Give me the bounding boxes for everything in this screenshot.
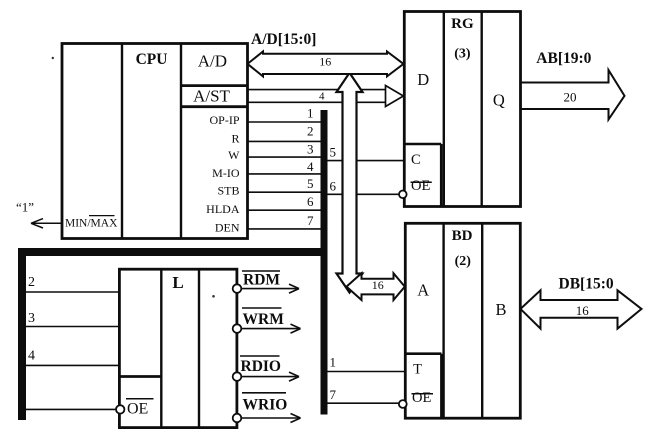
svg-text:OE: OE: [412, 390, 431, 406]
svg-text:C: C: [411, 152, 421, 168]
svg-text:WRM: WRM: [243, 311, 285, 328]
CPU inner divider 1: [121, 44, 123, 239]
svg-text:2: 2: [307, 124, 314, 139]
BD U3 block outline: [405, 223, 520, 418]
svg-text:AB[19:0: AB[19:0: [536, 50, 591, 67]
RG divider 1: [443, 12, 445, 207]
svg-text:4: 4: [28, 348, 35, 363]
wire MIN/MAX mode select with arrow: [31, 219, 61, 228]
svg-text:1: 1: [330, 354, 337, 369]
svg-text:OE: OE: [127, 401, 148, 418]
svg-text:WRIO: WRIO: [243, 397, 288, 414]
wire RDM output arrow: [241, 284, 299, 293]
wire W pin3: [248, 156, 322, 158]
RG C/OE sub-box right: [440, 144, 443, 207]
BD OE inverter circle: [399, 400, 407, 408]
svg-text:7: 7: [330, 387, 337, 402]
L U4 block outline: [119, 269, 236, 427]
svg-text:W: W: [228, 148, 240, 162]
svg-text:RDM: RDM: [243, 271, 280, 288]
bus 16 double arrow to BD A: [347, 273, 405, 300]
svg-text:A: A: [417, 281, 429, 300]
svg-text:5: 5: [307, 176, 314, 191]
svg-text:STB: STB: [217, 184, 239, 198]
L OE inverter circle: [116, 405, 124, 413]
svg-text:RDIO: RDIO: [241, 358, 281, 375]
svg-text:CPU: CPU: [136, 51, 168, 68]
BD T/OE sub-box right: [440, 354, 443, 419]
BD T/OE sub-box top: [405, 352, 441, 355]
wire 2 to L: [26, 291, 119, 293]
svg-text:L: L: [172, 273, 183, 292]
bus A/D[15:0] double arrow: [248, 52, 404, 77]
svg-text:BD: BD: [452, 228, 473, 244]
svg-text:MIN/MAX: MIN/MAX: [65, 218, 118, 230]
svg-text:D: D: [417, 70, 429, 89]
overline RDIO: [240, 355, 280, 357]
wire DEN pin7: [248, 228, 322, 230]
overline MAX: [89, 215, 115, 217]
wire M-IO pin4: [248, 173, 322, 175]
svg-text:3: 3: [307, 141, 314, 156]
svg-text:4: 4: [307, 159, 314, 174]
wire WRIO output arrow: [241, 414, 301, 423]
wire 4 to L: [26, 364, 119, 366]
scan speck: [52, 57, 54, 59]
svg-text:4: 4: [319, 91, 325, 103]
BD divider 1: [442, 223, 444, 418]
RG divider 2: [481, 12, 483, 207]
RG U2 block outline: [404, 12, 520, 207]
wire R pin2: [248, 140, 322, 142]
L divider 2: [198, 269, 200, 427]
svg-text:6: 6: [307, 194, 314, 209]
svg-text:M-IO: M-IO: [212, 166, 240, 180]
CPU inner divider 2: [180, 44, 182, 239]
wire 5 to RG C: [328, 160, 405, 162]
svg-text:Q: Q: [493, 91, 505, 110]
svg-text:DB[15:0: DB[15:0: [559, 276, 614, 293]
vertical data bus double arrow: [337, 73, 363, 293]
thick bus bar left vertical: [18, 248, 26, 420]
RG OE inverter circle: [399, 191, 407, 199]
svg-text:5: 5: [330, 144, 337, 159]
bus AB[19:0] output arrow: [520, 70, 624, 120]
L output port circle WRIO: [233, 414, 242, 423]
wire WRM output arrow: [241, 324, 301, 333]
overline WRM: [242, 307, 282, 309]
svg-text:R: R: [231, 132, 239, 146]
overline WRIO: [242, 392, 286, 394]
overline RG OE: [411, 181, 432, 183]
wire 7 to BD OE: [328, 402, 400, 404]
wire RDIO output arrow: [241, 372, 299, 381]
wire 3 to L: [26, 326, 119, 328]
wire to L OE: [26, 408, 116, 410]
svg-text:DEN: DEN: [215, 220, 240, 234]
svg-text:A/D: A/D: [198, 52, 227, 71]
wire STB pin5: [248, 191, 322, 193]
thick bus bar horizontal: [18, 248, 328, 256]
L OE sub-box top: [119, 375, 161, 378]
CPU U1 block outline: [62, 44, 248, 239]
bus A/ST 4-wire upper line: [248, 89, 386, 91]
svg-text:16: 16: [576, 303, 590, 318]
overline BD OE: [412, 393, 434, 395]
svg-text:A/D[15:0]: A/D[15:0]: [251, 31, 316, 48]
bus A/ST 4-wire lower line: [248, 101, 386, 103]
svg-text:(3): (3): [454, 47, 471, 62]
svg-text:7: 7: [307, 213, 314, 228]
bus DB[15:0] double arrow: [521, 290, 642, 328]
svg-text:(2): (2): [455, 254, 472, 269]
wire 1 to BD T: [328, 371, 406, 373]
bus A/ST arrowhead into D: [386, 86, 404, 107]
L output port circle WRM: [233, 324, 242, 333]
svg-text:16: 16: [319, 54, 331, 68]
L output port circle RDM: [233, 284, 242, 293]
svg-text:HLDA: HLDA: [206, 202, 240, 216]
CPU A/ST section divider: [181, 105, 248, 108]
thick bus bar right vertical: [321, 110, 328, 415]
svg-text:“1”: “1”: [16, 200, 34, 215]
L divider 1: [160, 269, 162, 427]
svg-text:6: 6: [330, 178, 337, 193]
wire OP-IP pin1: [248, 121, 322, 123]
svg-text:20: 20: [564, 89, 577, 104]
svg-text:A/ST: A/ST: [193, 87, 230, 106]
overline L OE: [126, 398, 154, 400]
svg-text:RG: RG: [451, 16, 474, 32]
L output port circle RDIO: [233, 372, 242, 381]
scan speck: [212, 295, 215, 298]
svg-text:OE: OE: [411, 178, 430, 194]
svg-text:1: 1: [307, 105, 314, 120]
svg-text:16: 16: [372, 278, 384, 292]
RG C/OE sub-box top: [404, 143, 441, 146]
BD divider 2: [481, 223, 483, 418]
svg-text:B: B: [495, 300, 506, 319]
svg-text:2: 2: [28, 275, 35, 290]
CPU A/D section divider: [181, 84, 248, 87]
wire 6 to RG OE: [328, 193, 400, 195]
svg-text:3: 3: [28, 311, 35, 326]
svg-text:T: T: [413, 361, 422, 377]
wire HLDA pin6: [248, 209, 322, 211]
svg-text:OP-IP: OP-IP: [209, 113, 239, 127]
overline RDM: [242, 270, 280, 272]
